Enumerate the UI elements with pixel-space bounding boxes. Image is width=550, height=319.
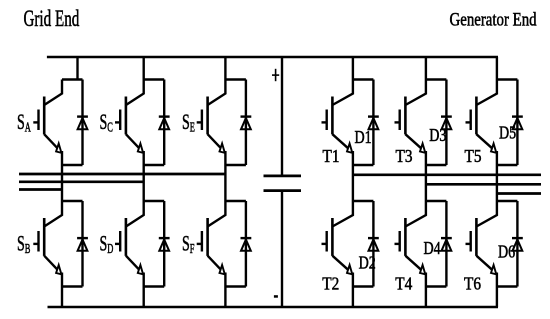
IGBT T4: [395, 201, 426, 287]
wire: leg 1 connection to bottom bus: [61, 287, 63, 308]
wire: leg 5 upper collector stub: [426, 78, 447, 80]
svg-text:Grid End: Grid End: [24, 7, 80, 32]
wire: leg 4 upper emitter stub (AC node): [353, 164, 374, 166]
wire: leg 5 AC phase node vertical: [425, 165, 427, 201]
svg-text:T1: T1: [323, 146, 340, 166]
wire: leg 3 upper collector stub: [225, 78, 246, 80]
IGBT SB: [33, 201, 62, 287]
IGBT SC: [115, 80, 144, 166]
wire: leg 2 connection to bottom bus: [142, 287, 144, 308]
wire: leg 4 AC phase node vertical: [352, 165, 354, 201]
svg-text:D2: D2: [359, 254, 376, 273]
svg-text:Generator End: Generator End: [449, 9, 536, 30]
wire: DC link cap bottom lead: [281, 191, 283, 307]
wire: leg 6 AC phase node vertical: [496, 165, 498, 201]
wire: leg 3 lower emitter stub: [225, 285, 246, 287]
wire: leg 5 lower collector stub: [426, 200, 447, 202]
diode antiparallel with T3 (D3): [441, 80, 452, 166]
wire: leg 4 connection to bottom bus: [352, 287, 354, 308]
wire: generator phase line a: [353, 173, 541, 176]
diode antiparallel with SA: [77, 80, 88, 166]
svg-text:D5: D5: [499, 124, 516, 143]
wire: leg 2 upper emitter stub (AC node): [144, 164, 165, 166]
IGBT SA: [33, 80, 62, 166]
label: + (DC link positive): [272, 69, 279, 81]
IGBT SF: [197, 201, 226, 287]
wire: DC link cap top lead: [281, 57, 283, 176]
wire: leg 3 AC phase node vertical: [224, 165, 226, 201]
wire: top bus drop to leg 4: [352, 57, 354, 80]
diode antiparallel with T4 (D4): [441, 201, 452, 287]
wire: grid phase line a: [19, 173, 225, 176]
label: - (DC link negative): [274, 295, 278, 298]
IGBT SD: [115, 201, 144, 287]
wire: leg 6 lower collector stub: [497, 200, 518, 202]
wire: leg 1 lower collector stub: [62, 200, 83, 202]
capacitor C1 top plate: [264, 174, 302, 177]
wire: leg 1 upper emitter stub (AC node): [62, 164, 83, 166]
svg-text:D3: D3: [429, 127, 446, 146]
svg-text:T2: T2: [322, 274, 339, 294]
wire: leg 1 upper collector stub: [62, 78, 83, 80]
wire: top bus drop to leg 6: [496, 57, 498, 80]
wire: leg 5 connection to bottom bus: [425, 287, 427, 308]
svg-text:D4: D4: [423, 240, 440, 259]
wire: leg 6 connection to bottom bus: [496, 287, 498, 308]
IGBT T6: [466, 201, 497, 287]
wire: leg 1 AC phase node vertical: [61, 165, 63, 201]
wire: leg 4 lower collector stub: [353, 200, 374, 202]
wire: top bus drop to leg 3: [224, 57, 226, 80]
IGBT T2: [322, 201, 353, 287]
wire: top DC bus (+ rail): [47, 56, 498, 59]
wire: leg 5 upper emitter stub (AC node): [426, 164, 447, 166]
diode antiparallel with SC: [159, 80, 170, 166]
wire: top bus drop to leg 2: [142, 57, 144, 80]
diode antiparallel with SB: [77, 201, 88, 287]
diode antiparallel with SD: [159, 201, 170, 287]
wire: top bus drop to leg 5: [425, 57, 427, 80]
svg-text:T3: T3: [396, 146, 413, 166]
wire: leg 5 lower emitter stub: [426, 285, 447, 287]
wire: leg 3 upper emitter stub (AC node): [225, 164, 246, 166]
wire: leg 3 connection to bottom bus: [224, 287, 226, 308]
svg-text:T4: T4: [395, 274, 413, 294]
wire: leg 2 upper collector stub: [144, 78, 165, 80]
wire: leg 4 lower emitter stub: [353, 285, 374, 287]
svg-text:T5: T5: [465, 146, 482, 166]
diode antiparallel with T5 (D5): [512, 80, 523, 166]
wire: generator phase line c: [497, 192, 541, 195]
diode antiparallel with SF: [241, 201, 252, 287]
diode antiparallel with T6 (D6): [512, 201, 523, 287]
wire: leg 6 lower emitter stub: [497, 285, 518, 287]
diode antiparallel with SE: [241, 80, 252, 166]
IGBT T3: [395, 80, 426, 166]
diode antiparallel with T2 (D2): [368, 201, 379, 287]
svg-text:T6: T6: [464, 274, 481, 294]
wire: top bus drop to leg 1: [76, 57, 78, 80]
diode antiparallel with T1 (D1): [368, 80, 379, 166]
wire: leg 3 lower collector stub: [225, 200, 246, 202]
wire: leg 6 upper emitter stub (AC node): [497, 164, 518, 166]
wire: grid phase line c: [19, 188, 62, 191]
wire: generator phase line b: [426, 183, 541, 186]
svg-text:D6: D6: [498, 243, 515, 262]
wire: bottom DC bus (- rail): [48, 306, 499, 309]
capacitor C1 bottom plate: [264, 189, 302, 192]
wire: grid phase line b: [19, 180, 144, 183]
IGBT SE: [197, 80, 226, 166]
wire: leg 4 upper collector stub: [353, 78, 374, 80]
IGBT T1: [322, 80, 353, 166]
svg-text:D1: D1: [355, 129, 372, 148]
wire: leg 2 lower collector stub: [144, 200, 165, 202]
wire: leg 1 lower emitter stub: [62, 285, 83, 287]
IGBT T5: [466, 80, 497, 166]
wire: leg 2 lower emitter stub: [144, 285, 165, 287]
wire: leg 6 upper collector stub: [497, 78, 518, 80]
wire: leg 2 AC phase node vertical: [142, 165, 144, 201]
